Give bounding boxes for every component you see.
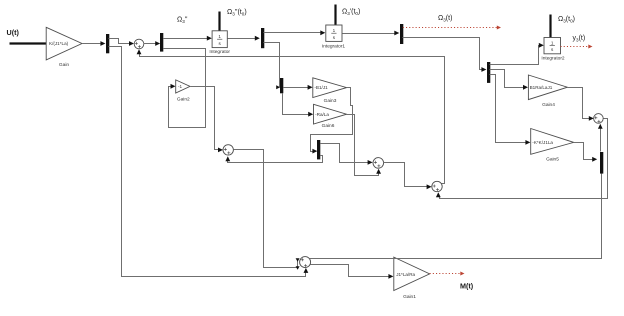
svg-text:Ω3(t): Ω3(t) [438,15,452,23]
svg-text:Gain2: Gain2 [177,97,190,103]
sum S2 [432,181,442,191]
wire bar5 to sum S4 left [321,144,369,163]
wire sum S3 down to sum S6 [234,150,298,268]
wire Gain to node bar1 [83,43,102,45]
wire sum S4 to sum S2 [384,163,428,187]
gain block Gain4 B1Ra/LaJ1 [528,75,567,100]
integrator block Integrator1 [326,25,342,41]
svg-text:Integrator: Integrator [209,49,230,55]
wire sum S5 down and left to sum S2 bottom [440,119,608,199]
wire bar1 to sum S1 [109,39,130,44]
svg-text:Gain4: Gain4 [542,102,555,108]
gain block Gain6 -Ra/La [314,104,347,124]
red dotted output y3(t) [561,46,589,48]
wire bar7 to Gain4 [490,70,524,88]
svg-text:K/(J1*La): K/(J1*La) [49,41,69,46]
svg-text:U(t): U(t) [7,28,20,37]
gain block Gain2 -1 [176,80,190,93]
svg-text:Gain: Gain [59,62,69,68]
svg-text:1: 1 [333,28,336,33]
svg-text:Gain3: Gain3 [324,98,337,104]
wire bar7 down to Gain5 [490,75,527,143]
svg-text:y3(t): y3(t) [573,35,586,43]
svg-text:Ω3''(t0): Ω3''(t0) [227,9,247,17]
gain block Gain1 J1*La/Ra [394,257,430,290]
wire bar7 up to Integrator2 [490,46,541,65]
red dotted scope line Omega3(t) [403,27,497,29]
sum S6 [300,257,311,268]
svg-text:B1Ra/LaJ1: B1Ra/LaJ1 [530,85,553,90]
wire bar4 to Gain3 [284,87,309,89]
wire bar2 to Integrator [164,38,208,40]
node bar4 [280,78,283,93]
wire sum S6 to Gain1 [311,265,389,277]
wire Integrator1 to node bar8 [343,33,395,35]
wire Gain5 to node bar6 [574,143,593,160]
node bar3 [261,28,264,48]
wire Gain4 to sum S5 [568,88,590,119]
svg-text:Gain1: Gain1 [403,294,416,300]
gain block Gain K/(J1*La) [46,27,82,60]
initial condition line into Integrator2 [549,15,551,38]
red dotted output M(t) [430,273,461,275]
node bar5 [317,140,320,159]
svg-text:1: 1 [551,40,554,45]
integrator block Integrator2 [544,38,561,54]
gain block Gain3 -B1/J1 [313,78,347,98]
svg-text:Gain6: Gain6 [322,123,335,129]
sum S1 [134,39,144,49]
svg-text:M(t): M(t) [460,282,474,291]
initial condition line into Integrator [218,12,220,31]
wire bar6 up to sum S5 bottom [600,128,602,152]
svg-text:-Ra/La: -Ra/La [315,112,329,117]
wire bar4 down to Gain6 [283,94,309,115]
svg-text:Integrator2: Integrator2 [541,55,565,61]
wire Gain3 down and left to node bar5 [311,88,353,152]
svg-text:Ω3'(t0): Ω3'(t0) [342,9,360,17]
wire bar5 down and left to sum S3 bottom [228,156,323,163]
node bar8 [400,24,403,44]
wire bar8 down to node bar7 [403,38,483,70]
wire bar3 to Integrator1 [264,32,321,34]
sum S4 [373,158,384,169]
svg-text:Ω3(t0): Ω3(t0) [558,16,575,24]
wire bar2 to Gain2 input loop [164,49,206,128]
node bar2 [160,33,163,52]
sum S3 [223,145,233,155]
svg-text:Integrator1: Integrator1 [322,43,346,49]
wire feedback sum S2 up and left to sum S1 bottom [140,53,445,184]
node bar6 [600,152,603,174]
sum S5 [594,114,604,124]
wire Integrator to node bar3 [228,38,256,40]
svg-text:Gain5: Gain5 [546,157,559,163]
initial condition line into Integrator1 [334,5,336,26]
svg-text:-1: -1 [178,84,183,89]
node bar1 [106,34,109,53]
wire sum S1 to node bar2 [144,43,156,45]
integrator block Integrator [212,31,227,48]
wire Gain2 down to sum S3 [191,87,219,150]
wire bar3 down to node bar4 [264,43,280,88]
input wire U(t) [10,42,47,44]
svg-text:J1*La/Ra: J1*La/Ra [396,272,415,277]
gain block Gain5 -K*K/J1La [531,129,574,155]
svg-text:1: 1 [218,34,221,39]
wire bar1 down to sum S6 bottom (long bottom feedforward) [109,47,306,277]
svg-text:-K*K/J1La: -K*K/J1La [532,140,553,145]
node bar7 [487,62,490,83]
wire bar6 down and left to sum S6 right (long feedback) [310,174,602,259]
wire Gain6 down to sum S4 bottom [347,115,379,176]
svg-text:-B1/J1: -B1/J1 [314,85,328,90]
